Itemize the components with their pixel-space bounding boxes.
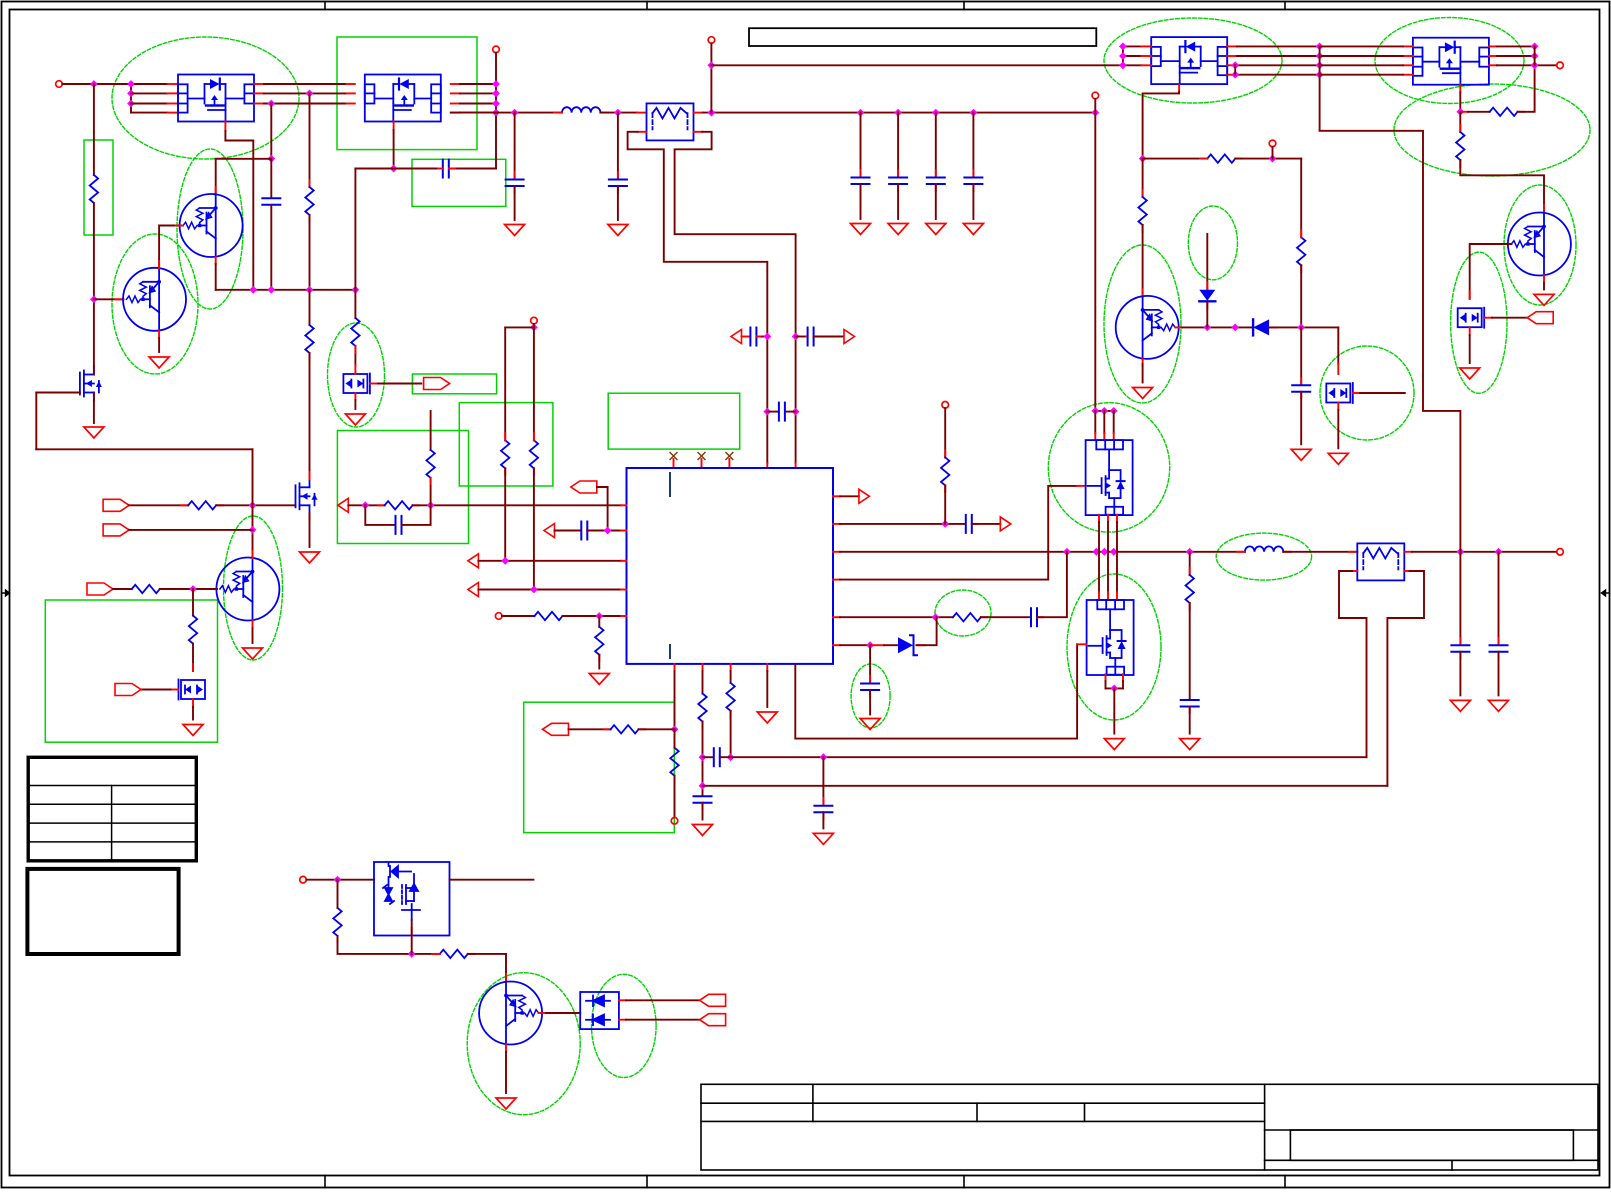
highlight ellipse Q-pack1 <box>112 37 299 159</box>
transistor Q-BJT3 <box>479 982 542 1045</box>
ground C-comp3 <box>860 719 880 730</box>
highlight ellipse high-side FET <box>1048 403 1169 532</box>
junction rail <box>708 109 716 117</box>
resistor R-fb1 <box>698 694 706 722</box>
wire FET2c gate stub <box>1360 392 1405 394</box>
wire pack3-pack4 <box>1237 55 1320 57</box>
junction 560 <box>501 557 509 565</box>
terminal VIN2 top <box>1092 92 1099 99</box>
junction SW <box>1092 548 1100 556</box>
wire pullup right <box>533 324 535 440</box>
wire cap drop <box>617 113 619 179</box>
capacitor C-bus1 <box>814 806 832 813</box>
wire aux down <box>337 880 339 908</box>
resistor R-158 <box>1207 154 1235 162</box>
wire agnd <box>766 671 768 707</box>
capacitor C-gatelow <box>1031 608 1037 626</box>
capacitor C-bulk2 <box>889 178 907 185</box>
wire shunt2 pinA to bus1 <box>1339 571 1367 757</box>
resistor R-base3 <box>440 950 468 958</box>
capacitor C-fb <box>694 796 712 803</box>
wire to IC 560 <box>478 560 621 562</box>
highlight ellipse gate resistor R-top-right <box>1394 84 1590 176</box>
wire BJT5 emitter to bus <box>215 264 217 290</box>
wire FET-355 gate to connector <box>378 383 421 385</box>
wire pin3 down <box>270 104 272 159</box>
resistor R-pullup2 <box>530 440 538 468</box>
junction vout1 <box>1457 548 1465 556</box>
connector flag gate2 <box>1527 312 1553 324</box>
ground C-bulk1 <box>851 224 871 235</box>
terminal VCC top <box>708 37 715 44</box>
wire R to FET-309 drain <box>309 353 311 479</box>
junction VCC bus <box>708 61 716 69</box>
wire aux to box4 <box>306 879 374 881</box>
transistor Q-BJT5 <box>180 194 243 257</box>
wire cap drop <box>897 113 899 177</box>
junction 496 tie <box>492 90 500 98</box>
wire FB bus1 <box>720 756 1367 758</box>
junction rail <box>857 109 865 117</box>
ground C-1301 <box>1291 449 1311 460</box>
highlight ellipse Q-BJT4 <box>112 234 198 374</box>
capacitor C-ff <box>714 748 720 766</box>
wire SW to shunt2 <box>1283 551 1357 553</box>
wire to FET2c <box>1337 327 1339 364</box>
no-connect mark <box>670 453 677 460</box>
connector arrow OUT2 <box>1000 517 1011 531</box>
ground C-rail2 <box>608 225 628 236</box>
label box top <box>749 28 1096 46</box>
wire tie pack4 right <box>1534 46 1536 65</box>
junction 589 <box>189 585 197 593</box>
no-connect mark <box>698 453 705 460</box>
wire cap drop <box>972 113 974 177</box>
capacitor C-comp3 <box>861 684 879 691</box>
wire BJT1 emitter <box>1142 364 1144 383</box>
wire vsns <box>597 487 608 531</box>
junction vout2 <box>1495 548 1503 556</box>
ground C-bulk3 <box>926 224 946 235</box>
wire rail C <box>703 112 1095 114</box>
wire bus1 cap <box>822 757 824 805</box>
wire fb mid <box>702 722 704 796</box>
wire C-series left <box>355 168 436 170</box>
highlight rect R-input <box>84 140 113 235</box>
wire VCC bus to pack3 <box>711 64 1123 66</box>
capacitor C-rail1 <box>506 180 524 187</box>
wire BJT4 emitter <box>158 338 160 352</box>
junction BJT1 node <box>1139 155 1147 163</box>
junction pin3/cap <box>267 100 275 108</box>
junction cf2 <box>792 408 800 416</box>
resistor R-sync <box>188 501 216 509</box>
junction SW <box>1186 548 1194 556</box>
wire aux bottom <box>338 936 440 954</box>
resistor R-BJT1 <box>1138 197 1146 225</box>
junction mid tie <box>1316 52 1324 60</box>
frame tick top <box>1284 2 1286 10</box>
connector flag SYNC <box>103 499 129 511</box>
highlight ellipse cap C-comp <box>851 664 890 728</box>
junction RT <box>595 612 603 620</box>
highlight ellipse Q-pack3 <box>1104 18 1282 103</box>
resistor R-355 <box>351 318 359 346</box>
junction mid tie <box>1316 71 1324 79</box>
highlight rect SS network <box>524 702 675 832</box>
transistor Q-FET-355 <box>343 374 370 394</box>
resistor R-gate4 <box>1490 108 1518 116</box>
ground BJT2 <box>1534 294 1554 305</box>
highlight ellipse L2 <box>1216 533 1311 580</box>
transistor Q-BJT1 <box>1116 296 1179 359</box>
resistor R-ss2 <box>670 748 678 776</box>
capacitor C-vs <box>581 522 587 540</box>
wire pack3-pack4 <box>1237 64 1320 66</box>
IC U1 main controller <box>627 468 834 664</box>
junction cf1 <box>763 408 771 416</box>
junction vs <box>604 527 612 535</box>
highlight ellipse Q-FET left <box>328 323 385 427</box>
wire sync to FET gate <box>216 504 295 506</box>
resistor R-rect7 <box>189 616 197 644</box>
frame tick bottom <box>963 1176 965 1188</box>
wire gate high FET <box>840 486 1077 580</box>
transistor Q-FET2c <box>1326 383 1353 403</box>
capacitor C-1301 <box>1292 385 1310 392</box>
highlight ellipse dual diode D-pack <box>592 974 657 1077</box>
highlight ellipse Q-BJT5 <box>177 149 243 309</box>
ground C-rail1 <box>505 225 525 236</box>
ground LS <box>1104 739 1124 750</box>
protection module box4 <box>374 862 450 936</box>
capacitor C-cs1 <box>750 328 756 346</box>
wire FET-355 source <box>354 400 356 409</box>
capacitor C-cs2 <box>808 328 814 346</box>
junction mid tie <box>1316 43 1324 51</box>
wire pullup2 <box>944 408 946 457</box>
junction pack4 right <box>1531 43 1539 51</box>
wire pack1-pack2 pin3 <box>264 103 345 105</box>
resistor R-ss1 <box>611 725 639 733</box>
connector flag EN2 <box>87 583 113 595</box>
resistor R-RT2 <box>595 627 603 655</box>
wire cap drop <box>860 113 862 177</box>
wire BJT1 base line <box>1182 326 1253 328</box>
dual MOSFET pack1 <box>178 75 254 122</box>
ground FET-309 <box>300 552 320 563</box>
wire right chain <box>1300 159 1302 238</box>
wire EN <box>129 529 252 531</box>
frame tick top <box>646 2 648 10</box>
ground C-fb <box>693 825 713 836</box>
highlight rect PGOOD connector <box>412 374 496 394</box>
junction rail/C-618 <box>614 109 622 117</box>
highlight ellipse gate resistor <box>935 590 991 636</box>
wire zener stub <box>1206 234 1208 289</box>
dual MOSFET pack4 <box>1413 38 1489 85</box>
wire BJT2 base <box>1470 244 1512 299</box>
junction out2 pullup <box>941 520 949 528</box>
wire gate across <box>36 448 252 450</box>
wire to BJT3 <box>468 954 506 982</box>
wire out2 <box>840 523 965 525</box>
wire R-355 to FET <box>354 346 356 365</box>
wire pack4 out <box>1497 64 1557 66</box>
wire pin2 <box>131 92 168 94</box>
junction rail <box>1091 109 1099 117</box>
wire pin tie pack1 left <box>130 84 132 113</box>
junction SW <box>1100 548 1108 556</box>
wire 496 column <box>495 53 497 169</box>
junction pack3 left <box>1119 52 1127 60</box>
terminal VOUT <box>1557 549 1564 556</box>
wire RT to IC <box>563 615 622 617</box>
wire tie mid <box>1319 46 1321 74</box>
wire to C-271 <box>270 159 272 198</box>
wire BJT6 emitter <box>252 628 254 643</box>
transistor Q-BJT6 <box>216 558 279 621</box>
wire pack1-pack2 pin2 <box>264 92 345 94</box>
connector flag DRV <box>115 684 141 696</box>
connector flag gate <box>424 378 450 390</box>
junction pack4 right <box>1531 52 1539 60</box>
capacitor C-out1 <box>1451 645 1469 652</box>
wire to BJT6 base <box>160 588 217 590</box>
ground C-bus1 <box>813 833 833 844</box>
junction base tap <box>90 295 98 303</box>
highlight ellipse Q-BJT1 <box>1104 245 1181 403</box>
terminal VDD pullups <box>531 317 538 324</box>
highlight ellipse Q-FET mid right <box>1320 346 1414 440</box>
junction mid tie <box>1316 61 1324 69</box>
junction aux <box>334 876 342 884</box>
wire vout cap2 <box>1498 552 1500 645</box>
transistor Q-FET-309 <box>296 479 318 513</box>
junction rail <box>970 109 978 117</box>
junction SS <box>671 725 679 733</box>
wire sync <box>129 504 188 506</box>
dual MOSFET pack2 <box>365 75 441 122</box>
capacitor C-out2 <box>1490 645 1508 652</box>
highlight rect enable FET <box>45 600 217 742</box>
wire shunt2 pinB to bus2 <box>1387 571 1424 786</box>
connector flag D1 <box>700 994 726 1006</box>
transistor Q-BJT2 <box>1508 213 1571 276</box>
wire sense1 pinA to IC <box>628 132 768 463</box>
capacitor C-series <box>443 160 449 178</box>
junction box4 bottom <box>408 950 416 958</box>
junction pack3 left <box>1119 43 1127 51</box>
ground IC agnd <box>757 712 777 723</box>
junction zener cap <box>866 641 874 649</box>
wire box4 out <box>450 879 534 881</box>
wire VCC drop <box>710 43 712 112</box>
wire vertical 252 <box>252 449 254 556</box>
resistor R-snub <box>1186 575 1194 603</box>
wire down to R-rect7 <box>192 589 194 616</box>
resistor R-aux <box>333 908 341 936</box>
terminal out top right <box>1557 62 1564 69</box>
wire pack2 source down <box>393 130 395 169</box>
frame tick bottom <box>1284 1176 1286 1188</box>
highlight ellipse Q-BJT3 <box>467 973 580 1115</box>
current sense R-shunt2 <box>1357 543 1404 580</box>
wire out1 <box>840 495 859 497</box>
wire pack1 source to bus <box>225 131 253 290</box>
transistor Q-FET-rect7 <box>179 680 206 700</box>
capacitor C-filter <box>779 403 785 421</box>
connector arrow PG <box>468 583 479 597</box>
junction cs2 <box>792 333 800 341</box>
inductor L2 <box>1245 546 1283 551</box>
highlight rect C-series <box>412 159 506 206</box>
capacitor C-bulk3 <box>927 178 945 185</box>
resistor R-pullup1 <box>501 440 509 468</box>
wire zener up <box>917 617 937 645</box>
frame tick top <box>324 2 326 10</box>
wire to BJT5 collector <box>216 158 272 160</box>
resistor R-RT <box>535 612 563 620</box>
resistor R-pull945 <box>941 457 949 485</box>
wire cap-comp drop <box>869 645 871 683</box>
highlight rect compensation <box>337 431 468 544</box>
connector flag SS <box>543 723 569 735</box>
terminal RT <box>495 613 502 620</box>
capacitor C-rail2 <box>609 180 627 187</box>
terminal SS test <box>671 818 678 825</box>
dual diode D-pack <box>580 992 619 1029</box>
wire local bus <box>216 289 356 291</box>
highlight ellipse zener D-top <box>1188 206 1237 280</box>
wire cap drop <box>935 113 937 177</box>
dual MOSFET pack3 <box>1151 37 1227 84</box>
ground BJT1 <box>1133 388 1153 399</box>
wire to IC 589 <box>478 589 621 591</box>
junction SW <box>1063 548 1071 556</box>
no-connect mark <box>726 453 733 460</box>
highlight ellipse Q-pack4 <box>1375 18 1524 104</box>
resistor R-fb2 <box>726 683 734 711</box>
wire pack3 source down <box>1143 92 1180 159</box>
wire pin3 <box>131 103 168 105</box>
junction comp top <box>427 501 435 509</box>
capacitor C-bulk1 <box>852 178 870 185</box>
ground FET-left <box>84 427 104 438</box>
frame tick bottom <box>324 1176 326 1188</box>
frame tick bottom <box>646 1176 648 1188</box>
wire FB bus2 <box>703 785 1388 787</box>
inductor L1 <box>562 107 600 112</box>
wire to BJT2 <box>1460 160 1544 213</box>
junction 496 tie <box>492 100 500 108</box>
wire gate R up <box>1518 65 1535 112</box>
highlight rect Q-pack2 <box>337 37 477 150</box>
resistor R-comp <box>385 501 413 509</box>
current sense R-shunt1 <box>647 103 694 140</box>
transistor Q-BJT4 <box>123 268 186 331</box>
wire box4 pin down <box>411 920 413 954</box>
highlight rect pullup resistors <box>459 403 553 486</box>
revision table <box>28 757 196 861</box>
wire BJT4 base <box>94 298 124 300</box>
junction pack3 left <box>1119 61 1127 69</box>
junction 589b <box>530 586 538 594</box>
wire R-309 to bus <box>309 215 311 290</box>
terminal aux in <box>300 876 307 883</box>
highlight ellipse Q-FET small right <box>1451 252 1507 393</box>
wire diode out2 <box>626 1019 700 1021</box>
frame tick top <box>963 2 965 10</box>
frame arrow left <box>2 590 10 596</box>
frame arrow right <box>1602 590 1610 596</box>
ground FET-355 <box>345 414 365 425</box>
ground C-out2 <box>1489 700 1509 711</box>
wire VIN to pack1 <box>62 83 167 85</box>
connector flag VSNS <box>571 481 597 493</box>
highlight ellipse Q-BJT2 <box>1504 185 1576 305</box>
wire comp cap branch b <box>402 505 431 525</box>
wire RC to SW <box>1037 552 1067 617</box>
title block <box>701 1084 1598 1170</box>
junction rail/C-515 <box>511 109 519 117</box>
wire pack4 source <box>1459 93 1461 112</box>
wire R-input to FET-left <box>93 203 95 366</box>
zener D-gate <box>898 635 917 655</box>
junction 496 tie <box>492 109 500 117</box>
wire down to R-355 <box>354 169 356 319</box>
wire C-271 to bus <box>270 205 272 289</box>
wire comp cap branch <box>365 505 394 525</box>
highlight ellipse low-side FET <box>1067 574 1161 720</box>
wire BJT5 collector <box>215 159 217 195</box>
ground FET-rect7 <box>183 725 203 736</box>
wire pack3-pack4 <box>1237 74 1320 76</box>
wire diode out1 <box>626 999 700 1001</box>
wire down to R-input <box>93 84 95 175</box>
transistor Q-FET-left-shunt <box>80 367 102 401</box>
junction gate R <box>1456 108 1464 116</box>
wire BJT4 collector to BJT5 base <box>159 226 183 269</box>
wire comp to IC <box>413 504 621 506</box>
resistor R-1301 <box>1297 237 1305 265</box>
junction VIN/R-input <box>90 80 98 88</box>
wire comp vertical <box>430 411 432 450</box>
wire to BJT1 <box>1142 225 1144 297</box>
wire gate left <box>36 392 80 394</box>
capacitor C-out2 <box>966 515 972 533</box>
wire pack3-pack4 <box>1237 45 1320 47</box>
junction sync <box>249 501 257 509</box>
highlight ellipse Q-BJT6 <box>224 516 283 660</box>
wire sense1 pinB to IC <box>675 132 796 463</box>
wire pack1-pack2 pin1 <box>264 83 345 85</box>
ground C-bulk2 <box>888 224 908 235</box>
junction cs1 <box>763 333 771 341</box>
junction base/cap <box>1297 324 1305 332</box>
capacitor C-bulk4 <box>964 178 982 185</box>
diode D-base <box>1253 319 1269 335</box>
ground R-RT2 <box>589 674 609 685</box>
wire rail A <box>460 112 562 114</box>
connector flag EN <box>103 524 129 536</box>
resistor R-309 <box>305 187 313 215</box>
terminal pull 1272 <box>1269 140 1276 147</box>
capacitor C-comp2 <box>396 516 402 534</box>
wire SW bus left <box>840 551 1245 553</box>
wire VIN to HS drain <box>1094 99 1096 411</box>
wire out descent <box>1320 75 1461 552</box>
